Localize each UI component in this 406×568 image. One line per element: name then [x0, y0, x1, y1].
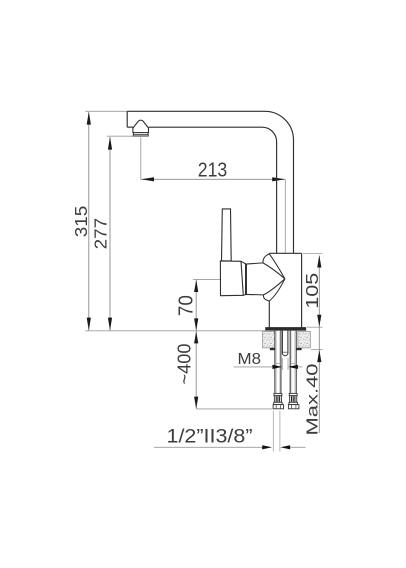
cone inner curve bottom (apex to corner) [269, 279, 285, 301]
cone silhouette bottom to apex [264, 279, 285, 295]
cone corner curve bottom [263, 295, 269, 301]
body top edge [269, 252, 301, 254]
cone top edge [246, 263, 263, 264]
pipe centerline extension [284, 179, 286, 253]
aerator face ring [134, 133, 149, 135]
spout bottom line left of aerator [127, 126, 133, 128]
body left edge lower [268, 301, 270, 328]
svg-text:315: 315 [71, 206, 91, 238]
left hose tube [275, 331, 281, 394]
stud rounded tip [282, 354, 288, 356]
left hex nut facets [276, 405, 280, 409]
right connector hex nut [288, 405, 299, 409]
arrow 105 top [317, 255, 321, 267]
left connector hex nut [273, 405, 284, 409]
connection size extension line right [279, 411, 281, 452]
M8 threaded stud [282, 331, 288, 354]
svg-text:M8: M8 [238, 351, 262, 368]
left connector thread ribs [276, 396, 279, 401]
connection size extension line left [272, 411, 274, 452]
svg-text:1/2”II3/8”: 1/2”II3/8” [167, 426, 253, 448]
left connector collar2 [274, 402, 282, 404]
M8 arrow right (pointing left) [288, 365, 298, 369]
extension line base plate right [307, 326, 323, 328]
aerator centerline [140, 137, 142, 179]
spout inner contour [149, 127, 277, 253]
arrow 105 bottom [317, 315, 321, 327]
M8 dimension line left part [234, 366, 273, 368]
base plate [266, 327, 306, 330]
svg-text:Max.40: Max.40 [305, 363, 322, 435]
connection dimension line right part [290, 446, 305, 448]
stud extension line right [287, 358, 289, 370]
svg-text:70: 70 [176, 295, 198, 316]
connection arrow right (pointing left) [280, 445, 290, 449]
dimension line ~400 [195, 331, 197, 408]
arrow 70 bottom [194, 318, 198, 330]
M8 arrow left (pointing right) [272, 365, 282, 369]
right hose tube [290, 331, 296, 394]
right hex nut facets [292, 405, 296, 409]
left hose step [275, 363, 281, 365]
arrow 315 top [87, 112, 91, 125]
svg-text:213: 213 [198, 159, 228, 181]
stud end face [282, 351, 288, 353]
dimension line 105 and Max.40 [318, 256, 320, 433]
extension line nut bottom right [311, 348, 323, 350]
cone corner curve top [263, 254, 269, 263]
extension line 70 top [193, 279, 221, 281]
right connector collar [289, 393, 297, 395]
arrow 277 top [108, 137, 112, 150]
arrow 277 bottom [108, 318, 112, 331]
cone silhouette top to apex [263, 263, 285, 279]
right hose step [290, 363, 296, 365]
left hose inner shading [277, 331, 280, 393]
cone inner curve top (apex to corner) [269, 254, 285, 279]
aerator face bottom [133, 135, 148, 136]
spout outer contour [127, 111, 293, 253]
M8 dimension line right part [298, 366, 303, 368]
svg-text:277: 277 [90, 218, 110, 250]
extension line hose bottom (~400) [196, 408, 272, 410]
nut tab left [270, 348, 275, 350]
svg-text:~400: ~400 [174, 344, 194, 385]
svg-text:105: 105 [302, 273, 322, 309]
extension line spout top left [85, 110, 127, 112]
collar line [245, 264, 247, 295]
dimension line 70 [195, 280, 197, 330]
cone bottom edge [246, 293, 264, 295]
left connector thread [274, 396, 281, 403]
ring top edge [241, 261, 246, 264]
mounting gasket right (stippled) [298, 331, 310, 348]
handle base [220, 261, 243, 296]
arrow ~400 bottom [194, 397, 198, 409]
spout left end cap [126, 111, 128, 127]
arrow ~400 top [194, 331, 198, 343]
arrow 315 bottom [87, 318, 91, 331]
connection arrow left (pointing right) [262, 445, 272, 449]
handle lever stick [222, 209, 232, 261]
body left edge upper stub [268, 252, 270, 255]
dimension line 277 [109, 137, 111, 330]
right connector thread ribs [292, 396, 295, 401]
stud extension line left [281, 358, 283, 370]
extension line aerator bottom left [107, 135, 133, 137]
body right edge [301, 253, 303, 327]
right connector collar2 [289, 402, 297, 404]
arrow 213 left [141, 177, 154, 181]
countertop extension line left [85, 330, 265, 332]
arrow 213 right [272, 177, 285, 181]
right connector thread [290, 396, 297, 403]
nut tab right [297, 348, 302, 350]
mounting gasket left (stippled) [263, 331, 275, 348]
connection dimension line left part [154, 446, 263, 448]
right hose inner shading [292, 331, 295, 393]
ring bottom edge [243, 294, 246, 297]
dimension line 213 [141, 178, 285, 180]
arrow Max.40 bottom (outside, pointing up) [317, 350, 321, 362]
left connector collar [274, 393, 282, 395]
extension line body top right [303, 253, 323, 255]
arrow 70 top [194, 280, 198, 292]
aerator body [133, 120, 149, 133]
dimension line 315 [88, 112, 90, 330]
